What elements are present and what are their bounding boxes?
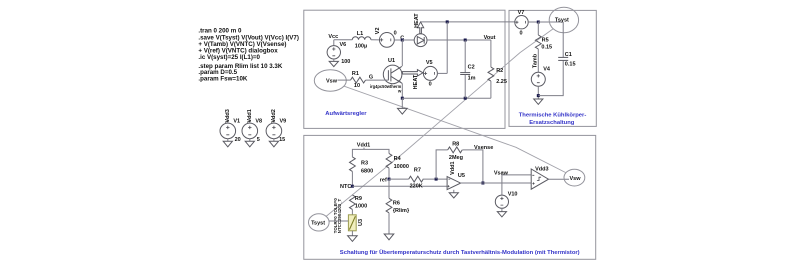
junction C2 top (464, 39, 467, 42)
svg-text:G: G (369, 74, 373, 80)
inductor L1 (352, 31, 371, 49)
ground under U1 (398, 98, 408, 114)
svg-text:V2: V2 (375, 27, 381, 34)
svg-text:6800: 6800 (361, 168, 373, 174)
svg-text:100µ: 100µ (355, 44, 367, 50)
ground under V8 (245, 139, 254, 147)
wire R1 to U1 gate (366, 79, 389, 81)
junction V4/C1 return (537, 94, 540, 97)
svg-text:R2: R2 (496, 68, 503, 74)
voltage source V10 (495, 191, 517, 208)
wire diode to Vout corner (427, 39, 491, 41)
resistor R4 (386, 154, 409, 180)
wire comparator out to Vsw port (549, 178, 570, 180)
svg-text:Thermische Kühlkörper-: Thermische Kühlkörper- (519, 113, 587, 119)
svg-text:V1: V1 (233, 118, 240, 124)
svg-text:Vsw: Vsw (326, 79, 338, 85)
diagonal Tsyst link (326, 29, 553, 217)
svg-text:10000: 10000 (394, 164, 409, 170)
svg-text:.ic V(syst)=25 I(L1)=0: .ic V(syst)=25 I(L1)=0 (198, 54, 260, 61)
svg-text:Ersatzschaltung: Ersatzschaltung (529, 120, 575, 126)
svg-text:V6: V6 (340, 42, 347, 48)
svg-text:1m: 1m (468, 75, 476, 81)
junction Vsense/output (481, 182, 484, 185)
ground under V10 (497, 208, 506, 217)
svg-text:220K: 220K (410, 183, 423, 189)
svg-text:L1: L1 (357, 31, 363, 37)
port Vsw (box1) (314, 70, 346, 91)
voltage source V2 (375, 27, 397, 47)
svg-text:R4: R4 (394, 156, 402, 162)
port Vsw (box3) (564, 169, 585, 186)
svg-text:2.25: 2.25 (496, 79, 507, 85)
svg-text:U1: U1 (388, 58, 395, 64)
svg-text:Vsw: Vsw (570, 176, 582, 182)
wire node C to diode (402, 39, 414, 41)
resistor R2 (488, 40, 507, 98)
junction R8 left (435, 178, 438, 181)
svg-text:R5: R5 (542, 37, 549, 43)
svg-text:R6: R6 (393, 200, 400, 206)
svg-text:.param Fsw=10K: .param Fsw=10K (198, 75, 248, 82)
svg-text:R7: R7 (414, 168, 421, 174)
svg-text:0: 0 (394, 30, 397, 36)
wire C1 return (538, 61, 563, 96)
svg-text:Vdd2: Vdd2 (271, 109, 277, 122)
svg-text:R9: R9 (355, 196, 362, 202)
voltage source V6 (327, 40, 350, 65)
svg-text:U5: U5 (458, 173, 465, 179)
capacitor C2 (460, 40, 475, 98)
svg-text:V10: V10 (508, 191, 518, 197)
box Aufwaertsregler (304, 10, 505, 128)
svg-text:Vdd1: Vdd1 (247, 109, 253, 122)
port Tsyst (box2) (549, 7, 578, 33)
junction C2 bottom (464, 97, 467, 100)
wire NTC to U5 plus (352, 185, 447, 187)
svg-text:C2: C2 (468, 65, 475, 71)
wire V2 to node C (394, 39, 402, 41)
svg-text:Tsyst: Tsyst (555, 17, 569, 23)
ground under R6 (384, 234, 394, 240)
op-amp U5 (447, 161, 465, 189)
svg-text:HEAT: HEAT (413, 74, 419, 89)
svg-text:0.15: 0.15 (541, 44, 552, 50)
svg-text:V4: V4 (543, 66, 551, 72)
wire Vdd1 rail (352, 148, 389, 157)
svg-text:5: 5 (257, 137, 260, 143)
svg-text:Vdd1: Vdd1 (450, 161, 456, 174)
svg-text:Vdd3: Vdd3 (225, 109, 231, 122)
voltage source V7 (515, 10, 528, 37)
svg-text:R3: R3 (361, 160, 368, 166)
svg-text:Aufwärtsregler: Aufwärtsregler (325, 111, 367, 117)
svg-text:NTC: NTC (340, 184, 351, 190)
resistor R1 (351, 71, 366, 89)
resistor R8 feedback (436, 142, 483, 184)
svg-text:ref: ref (380, 177, 387, 183)
wire V7 to junction (528, 21, 538, 23)
diagonal Vsw link (344, 86, 565, 172)
wire V4 down (537, 86, 539, 99)
ground under V4 (534, 99, 543, 104)
ground under U3 (348, 231, 358, 242)
svg-text:10: 10 (354, 83, 360, 89)
spice directive text block (198, 28, 299, 83)
svg-text:100: 100 (341, 59, 350, 65)
svg-text:0.15: 0.15 (565, 62, 576, 68)
svg-text:V9: V9 (280, 118, 287, 124)
ground under V1 (223, 139, 232, 147)
resistor R5 (535, 22, 552, 72)
comparator U (Vdd3) (531, 166, 548, 189)
svg-text:Schaltung für Übertemperatursc: Schaltung für Übertemperaturschutz durch… (340, 249, 580, 256)
svg-text:0: 0 (429, 81, 432, 87)
svg-text:Vcc: Vcc (328, 34, 338, 40)
svg-text:NTCC2904203_T: NTCC2904203_T (337, 198, 342, 233)
svg-text:Vsense: Vsense (474, 145, 493, 151)
wire R7 to U5 minus (423, 178, 447, 180)
voltage source V5 (423, 60, 437, 87)
wire Vsw to R1 (338, 79, 351, 81)
capacitor C1 (558, 22, 575, 68)
resistor R9 (350, 195, 368, 215)
svg-text:1000: 1000 (355, 204, 367, 210)
svg-text:V7: V7 (518, 10, 525, 16)
wire Vcc rail (334, 39, 353, 41)
resistor R7 (409, 168, 423, 190)
wire junction to Tsyst drop (538, 21, 563, 23)
wire V5 to HEAT vertical (437, 72, 447, 74)
diode D (freewheel, in circle) (414, 34, 427, 47)
thermistor U3 (333, 198, 364, 234)
svg-text:0: 0 (520, 30, 523, 36)
junction HEAT rail (446, 20, 449, 23)
box thermal (509, 10, 596, 126)
ground under U5 (449, 190, 458, 198)
svg-text:V8: V8 (255, 118, 262, 124)
wire Tsyst to U3 (329, 220, 348, 222)
svg-text:Tamb: Tamb (533, 53, 539, 68)
svg-text:irg4pc50wtherm: irg4pc50wtherm (370, 84, 402, 89)
wire HEAT junction down to V5 (446, 22, 448, 74)
svg-text:Vsaw: Vsaw (494, 171, 509, 177)
voltage source V9 (266, 109, 286, 143)
svg-text:U3: U3 (358, 219, 364, 226)
wire ref to R7 (389, 178, 409, 180)
svg-text:20: 20 (235, 137, 241, 143)
svg-text:V5: V5 (426, 60, 433, 66)
junction emitter (401, 97, 404, 100)
wire U1 emitter down (401, 83, 403, 98)
svg-text:2Meg: 2Meg (449, 155, 463, 161)
ground under V6 (329, 59, 338, 67)
wire node C down to U1 collector (401, 40, 403, 66)
ground under V9 (269, 139, 278, 147)
wire L1 to V2 (371, 39, 380, 41)
svg-text:R8: R8 (452, 142, 459, 148)
bottom rail box1 (402, 97, 491, 99)
svg-text:R1: R1 (352, 71, 359, 77)
voltage source V8 (242, 109, 262, 143)
svg-text:C1: C1 (565, 52, 572, 58)
port Tsyst (box3) (309, 214, 330, 231)
svg-text:{Rlim}: {Rlim} (393, 208, 410, 214)
voltage source V4 (531, 66, 551, 86)
resistor R3 (350, 157, 374, 186)
box overtemperature (304, 135, 596, 259)
svg-text:HEAT: HEAT (414, 13, 420, 28)
transistor U1 irg4pc50wtherm (370, 58, 402, 93)
svg-text:Vdd1: Vdd1 (357, 142, 370, 148)
thermal arrow U1 to V5 (402, 70, 423, 90)
svg-text:Vout: Vout (484, 35, 496, 41)
junction V7/R5/Tsyst (537, 21, 540, 24)
svg-text:15: 15 (279, 137, 285, 143)
voltage source V1 (220, 109, 241, 143)
svg-text:w: w (397, 88, 402, 93)
wire Vsaw to comparator minus (502, 175, 531, 195)
heat arrow from diode to HEAT node (414, 13, 424, 34)
resistor R6 (386, 179, 410, 234)
svg-text:Vdd3: Vdd3 (535, 166, 548, 172)
wire U5 out to comparator plus (461, 182, 532, 184)
svg-text:Tsyst: Tsyst (311, 221, 325, 227)
wire HEAT top rail to V7 (421, 21, 515, 23)
